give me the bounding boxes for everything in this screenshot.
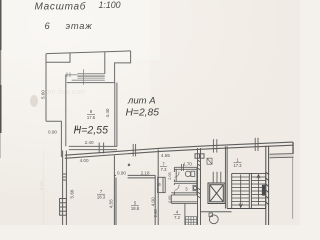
outer wall segment x=105 (104, 52, 106, 74)
door cross mark (128, 164, 130, 166)
svg-text:0.65: 0.65 (168, 196, 172, 203)
outer top wall (46, 51, 130, 54)
svg-text:2.18: 2.18 (141, 170, 150, 175)
svg-text:Н=2,55: Н=2,55 (74, 125, 109, 137)
svg-text:4.00: 4.00 (80, 158, 89, 163)
svg-text:лит А: лит А (127, 96, 156, 107)
svg-text:4.40: 4.40 (105, 108, 110, 117)
balcony rect top-left (46, 53, 70, 62)
faint bleed-through (39, 88, 85, 225)
svg-text:17.5: 17.5 (87, 115, 96, 120)
room5 top wall with 0.90 door gap (128, 174, 156, 176)
staircase (225, 146, 265, 208)
svg-text:4.00: 4.00 (151, 197, 156, 206)
svg-text:17.2: 17.2 (233, 163, 242, 168)
toilet in room 2 (185, 171, 194, 176)
svg-text:этаж: этаж (66, 21, 93, 31)
dimension labels (41, 90, 193, 218)
door arcs hall->wc (174, 172, 179, 191)
svg-text:0.90: 0.90 (117, 170, 126, 175)
vent symbol (207, 158, 212, 164)
stairs right wall with hatch (266, 146, 269, 225)
dark marker right flight (262, 185, 265, 196)
left outer wall (45, 54, 47, 122)
room number/area fractions (87, 109, 242, 220)
divider wall rooms 7|5 (114, 155, 155, 225)
svg-text:эт.дом.сит: эт.дом.сит (46, 88, 85, 96)
room 8 bottom wall with door ticks (69, 145, 117, 147)
room 4 right wall and vent grid (184, 203, 186, 225)
faint stamp blob (30, 95, 38, 107)
sink in room 3 (193, 185, 197, 190)
svg-text:2.40: 2.40 (85, 140, 94, 145)
vestibule wall + garbage chute (201, 212, 232, 224)
svg-text:6.00: 6.00 (39, 181, 44, 190)
stair down arrow (239, 175, 260, 208)
svg-text:5.60: 5.60 (41, 90, 46, 99)
top-right step of outline (115, 51, 131, 83)
long south wall (sloped, double) (65, 142, 293, 158)
bathroom block (171, 167, 197, 203)
antresol / hatch band at top of room 8 (65, 69, 105, 85)
ticks crossing south wall (133, 138, 258, 157)
plan texts (74, 96, 160, 137)
room 8 walls (66, 75, 117, 154)
elevator door ticks (213, 172, 221, 183)
svg-text:Масштаб: Масштаб (35, 1, 87, 13)
svg-text:1:100: 1:100 (99, 0, 121, 10)
svg-text:4.55: 4.55 (108, 199, 113, 208)
svg-text:2.60: 2.60 (153, 209, 158, 218)
svg-text:1.70: 1.70 (183, 161, 192, 166)
svg-text:5.66: 5.66 (69, 189, 74, 198)
title text "Масштаб 1:100" (35, 0, 121, 31)
svg-text:2.05: 2.05 (168, 172, 172, 179)
svg-text:18.3: 18.3 (97, 195, 106, 200)
lobby left wall (thick with hatch) (195, 148, 204, 225)
svg-text:6: 6 (45, 21, 51, 31)
svg-text:Н=2,85: Н=2,85 (126, 108, 160, 119)
svg-text:4.85: 4.85 (161, 153, 170, 158)
wall jog (46, 121, 61, 157)
svg-text:7.2: 7.2 (174, 215, 180, 220)
left wall of room7 with window block (60, 151, 67, 226)
svg-text:18.8: 18.8 (131, 206, 140, 211)
ticks crossing bathroom top wall (182, 164, 184, 171)
dark scan edge left (0, 0, 2, 50)
right balcony band (270, 142, 294, 219)
room5 right wall (double) (155, 150, 158, 226)
niche below bathroom (171, 201, 197, 203)
elevator shaft (208, 183, 225, 204)
svg-text:0.90: 0.90 (48, 129, 57, 134)
small ticks near 0.90 door left wall (75, 126, 77, 131)
closet room 6 (158, 177, 166, 192)
svg-text:7.3: 7.3 (161, 167, 167, 172)
